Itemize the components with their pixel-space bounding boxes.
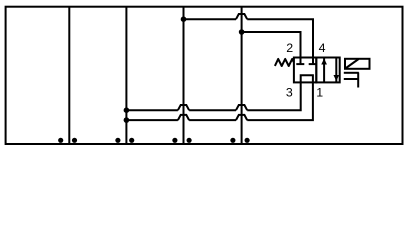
valve V1 pilot symbol <box>344 72 359 74</box>
up arrowhead <box>321 59 327 65</box>
wire W3 hop over line D <box>236 105 247 110</box>
wire W4 hop over line D <box>236 115 247 120</box>
valve V1 right box flow path down arrow <box>335 58 337 83</box>
down arrowhead <box>333 75 339 81</box>
connector dot A-right <box>72 138 77 143</box>
valve V1 solenoid box <box>345 59 370 69</box>
connector dot B-right <box>129 138 134 143</box>
wire vertical line A <box>68 7 70 144</box>
wire vertical line C <box>183 7 185 144</box>
valve V1 solenoid diagonal <box>346 59 359 68</box>
junction node C-W1 <box>181 16 187 22</box>
wire vertical line D <box>241 7 243 144</box>
junction node D-W2 <box>239 29 245 35</box>
valve V1 return spring <box>275 59 294 66</box>
valve V1 right position box <box>316 58 339 83</box>
wire W3 from node B to valve port 3 <box>126 109 177 111</box>
wire W1 hop over line D <box>236 14 247 19</box>
wire W4 from node B to valve port 1 <box>126 119 177 121</box>
connector dot C-left <box>172 138 177 143</box>
connector dot D-right <box>245 138 250 143</box>
connector dot B-left <box>115 138 120 143</box>
junction node B-W4 <box>124 117 130 123</box>
wire vertical line B <box>125 7 127 144</box>
connector dot D-left <box>230 138 235 143</box>
wire W1 from node C to valve port 4 <box>184 18 237 20</box>
svg-text:2: 2 <box>286 41 293 55</box>
wire W2 from node D to valve port 2 <box>242 32 301 57</box>
svg-text:3: 3 <box>286 86 293 100</box>
svg-text:1: 1 <box>316 86 323 100</box>
connector dot A-left <box>58 138 63 143</box>
wire W3 hop over line C <box>178 105 189 110</box>
valve V1 U connection ports 1-3 <box>301 75 313 82</box>
valve V1 blocked port 4 (T symbol) <box>312 58 314 65</box>
valve V1 right box flow path up arrow <box>323 58 325 83</box>
valve V1 left position box <box>294 58 316 83</box>
svg-text:4: 4 <box>319 41 326 55</box>
wire W4 hop over line C <box>178 115 189 120</box>
connector dot C-right <box>187 138 192 143</box>
junction node B-W3 <box>124 107 130 113</box>
valve V1 blocked port 2 (T symbol) <box>300 58 302 65</box>
